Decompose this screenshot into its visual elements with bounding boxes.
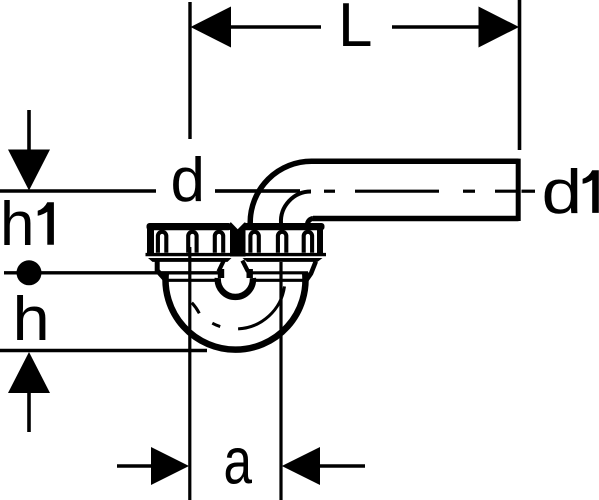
- svg-text:d: d: [171, 146, 205, 215]
- right nut rim line: [238, 253, 326, 256]
- extension line right of dimension L: [518, 0, 522, 150]
- right inner skirt: [242, 261, 248, 272]
- right nut knurl slot 3: [304, 232, 312, 253]
- tick to label d1: [522, 190, 536, 193]
- left nut left side: [147, 228, 154, 253]
- svg-text:h: h: [0, 190, 34, 259]
- dimension line L left segment: [228, 25, 321, 28]
- water level line: [4, 271, 219, 274]
- arrow up at trap bottom level: [8, 352, 50, 393]
- joint between nuts: [230, 223, 246, 257]
- bowl top lower line right: [251, 279, 309, 282]
- arrowhead a right: [282, 447, 320, 485]
- svg-text:h: h: [13, 284, 50, 353]
- dip tube left wall: [218, 269, 224, 278]
- trap bowl outer shell: [166, 272, 306, 349]
- right nut top band: [239, 223, 325, 230]
- dimension a right tail: [319, 464, 365, 467]
- arrowhead left of dimension L: [191, 7, 232, 48]
- trap bottom reference line: [0, 349, 207, 352]
- dimension a left tail: [117, 464, 153, 467]
- pipe centreline long dash: [355, 190, 439, 193]
- extension line a right (outlet centreline): [279, 262, 282, 500]
- left nut knurl slot 3: [215, 232, 223, 253]
- left nut top band: [147, 223, 232, 230]
- dimension line L right segment: [392, 25, 481, 28]
- bowl top line left: [163, 279, 219, 282]
- extension line left of dimension L: [188, 2, 191, 139]
- extension line a left (inlet centreline): [188, 247, 191, 500]
- bowl inner wall arc solid upper-left piece: [192, 303, 200, 314]
- right nut knurl slot 2: [278, 232, 286, 253]
- pipe centreline end dash: [495, 190, 518, 193]
- pipe right end edge: [516, 159, 521, 221]
- right outer skirt: [304, 262, 316, 284]
- left inner skirt: [219, 261, 224, 272]
- left nut knurl slot 1: [158, 232, 166, 253]
- left nut knurl slot 2: [188, 232, 196, 253]
- left nut rim flange: [148, 258, 232, 262]
- pipe top edge: [311, 159, 519, 165]
- svg-text:d: d: [542, 158, 583, 227]
- svg-text:L: L: [338, 0, 372, 60]
- svg-text:a: a: [224, 424, 253, 498]
- left nut rim line: [146, 253, 234, 256]
- pipe centreline solid part merging into reference line: [215, 189, 300, 192]
- bowl inner wall arc solid right piece: [238, 286, 284, 329]
- left outer skirt: [157, 261, 164, 279]
- right nut right side: [317, 228, 323, 253]
- arrowhead right of dimension L: [479, 7, 520, 48]
- label d1 digit 1: [583, 170, 599, 213]
- pipe centreline dot 2: [463, 190, 475, 193]
- right nut knurl slot 1: [250, 232, 258, 253]
- elbow outer bend: [250, 161, 311, 225]
- bowl top line right: [251, 271, 308, 274]
- arrowhead a left: [151, 447, 189, 485]
- arrow down at h1 level: [27, 110, 31, 151]
- reference line at pipe axis level (left part): [0, 189, 156, 192]
- dip tube right wall: [246, 269, 252, 278]
- elbow lower corner into nut: [307, 219, 313, 225]
- reference line at pipe axis level (right of label d): [215, 189, 300, 192]
- water level dot: [17, 260, 42, 285]
- elbow inner bend silhouette: [281, 191, 311, 223]
- pipe centreline dot 1: [324, 190, 335, 193]
- bowl inner wall hidden dash: [212, 323, 220, 326]
- right nut rim flange: [243, 258, 323, 262]
- dip tube bulb: [218, 278, 253, 297]
- pipe bottom edge: [313, 216, 519, 222]
- label h1 digit 1: [38, 202, 54, 245]
